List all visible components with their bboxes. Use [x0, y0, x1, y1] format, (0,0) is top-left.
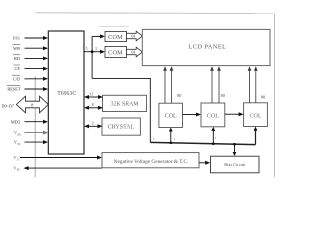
bus COL1 to panel line b — [171, 71, 173, 104]
column supply bus — [150, 142, 255, 144]
wire junction to COM2 — [92, 51, 100, 53]
svg-text:3: 3 — [95, 47, 97, 51]
bus COL2 to panel line a — [211, 71, 213, 104]
wire bus riser to COL3 — [255, 130, 257, 144]
bus T6963C-SRAM lower — [89, 107, 99, 109]
wire generator to bias circuit — [199, 162, 206, 164]
faint artifact line — [99, 26, 129, 28]
svg-text:D0~D7: D0~D7 — [2, 103, 15, 108]
negative voltage generator block — [102, 153, 199, 168]
node junction dot — [91, 50, 94, 53]
wire MD2 — [25, 121, 44, 123]
wire VDD — [25, 132, 44, 134]
svg-text:RESET: RESET — [7, 87, 21, 92]
data bus hollow double arrow with 8 — [16, 96, 48, 113]
wire Vo into generator — [20, 157, 98, 159]
svg-text:Negative Voltage Generator & T: Negative Voltage Generator & T.C. — [114, 159, 189, 165]
svg-text:80: 80 — [221, 93, 225, 98]
bus COL3 to panel line a — [249, 71, 251, 103]
wire CE — [25, 68, 44, 70]
svg-text:CE: CE — [15, 66, 21, 71]
svg-text:WR: WR — [13, 46, 20, 51]
wire COL2 to COL3 — [225, 113, 239, 115]
wire WR — [25, 47, 44, 49]
svg-text:Bias Circuit: Bias Circuit — [224, 162, 246, 167]
svg-text:80: 80 — [177, 93, 181, 98]
bias circuit block — [211, 156, 260, 173]
wire junction to COM1 — [92, 35, 100, 37]
figure frame left line — [34, 76, 36, 177]
wire VEE out of generator — [28, 167, 102, 169]
svg-text:COL: COL — [207, 114, 219, 120]
svg-text:64: 64 — [131, 35, 135, 39]
bus arrow COM2 to panel — [127, 47, 143, 57]
wire junction down to column bus — [92, 78, 150, 142]
driver COM2 — [105, 47, 127, 58]
wire bus riser to COL2 — [212, 131, 214, 144]
crystal block — [102, 118, 140, 135]
driver COM1 — [105, 32, 127, 42]
svg-text:RD: RD — [14, 56, 20, 61]
wire C/D — [25, 78, 44, 80]
wire T6963C to COM junction — [84, 51, 92, 53]
wire bus drop to bias circuit — [234, 144, 236, 152]
svg-text:COM: COM — [108, 34, 123, 41]
driver COL3 — [244, 103, 268, 127]
svg-text:T6963C: T6963C — [57, 91, 76, 97]
svg-text:LCD PANEL: LCD PANEL — [189, 43, 227, 50]
svg-text:DD: DD — [17, 133, 21, 136]
driver COL2 — [201, 103, 225, 127]
svg-text:5: 5 — [86, 47, 88, 51]
svg-text:COM: COM — [108, 50, 123, 57]
bus T6963C-SRAM upper — [89, 96, 99, 98]
bus COL1 to panel line a — [164, 71, 166, 104]
bus arrow COM1 to panel — [127, 31, 143, 41]
svg-text:C/D: C/D — [13, 76, 20, 81]
svg-text:11: 11 — [90, 92, 94, 96]
svg-text:FS1: FS1 — [13, 36, 20, 41]
wire RESET — [25, 88, 44, 90]
wire RD — [25, 57, 44, 59]
wire VSS — [25, 141, 44, 143]
svg-text:80: 80 — [261, 95, 265, 100]
wire FS1 — [25, 37, 44, 39]
svg-text:2: 2 — [92, 122, 94, 126]
svg-text:COL: COL — [165, 114, 177, 120]
wire bus riser to COL1 — [170, 131, 172, 143]
svg-text:EE: EE — [17, 169, 21, 172]
driver COL1 — [159, 103, 183, 127]
wire COL1 to COL2 — [183, 114, 197, 116]
svg-text:O: O — [17, 158, 19, 161]
bus T6963C-crystal — [89, 125, 99, 127]
bus COL3 to panel line b — [255, 71, 257, 103]
LCD panel — [142, 29, 270, 65]
svg-text:CRYSTAL: CRYSTAL — [108, 124, 135, 130]
wire junction riser — [91, 36, 93, 78]
svg-text:MD2: MD2 — [11, 119, 20, 124]
svg-text:64: 64 — [131, 51, 135, 55]
figure frame top line — [36, 12, 275, 15]
svg-text:COL: COL — [250, 113, 262, 119]
memory 32K SRAM — [103, 95, 147, 111]
svg-text:8: 8 — [92, 103, 94, 107]
controller U1 T6963C — [48, 31, 84, 154]
svg-text:32K SRAM: 32K SRAM — [111, 101, 139, 107]
figure frame right line — [273, 14, 275, 177]
bus COL2 to panel line b — [218, 71, 220, 104]
